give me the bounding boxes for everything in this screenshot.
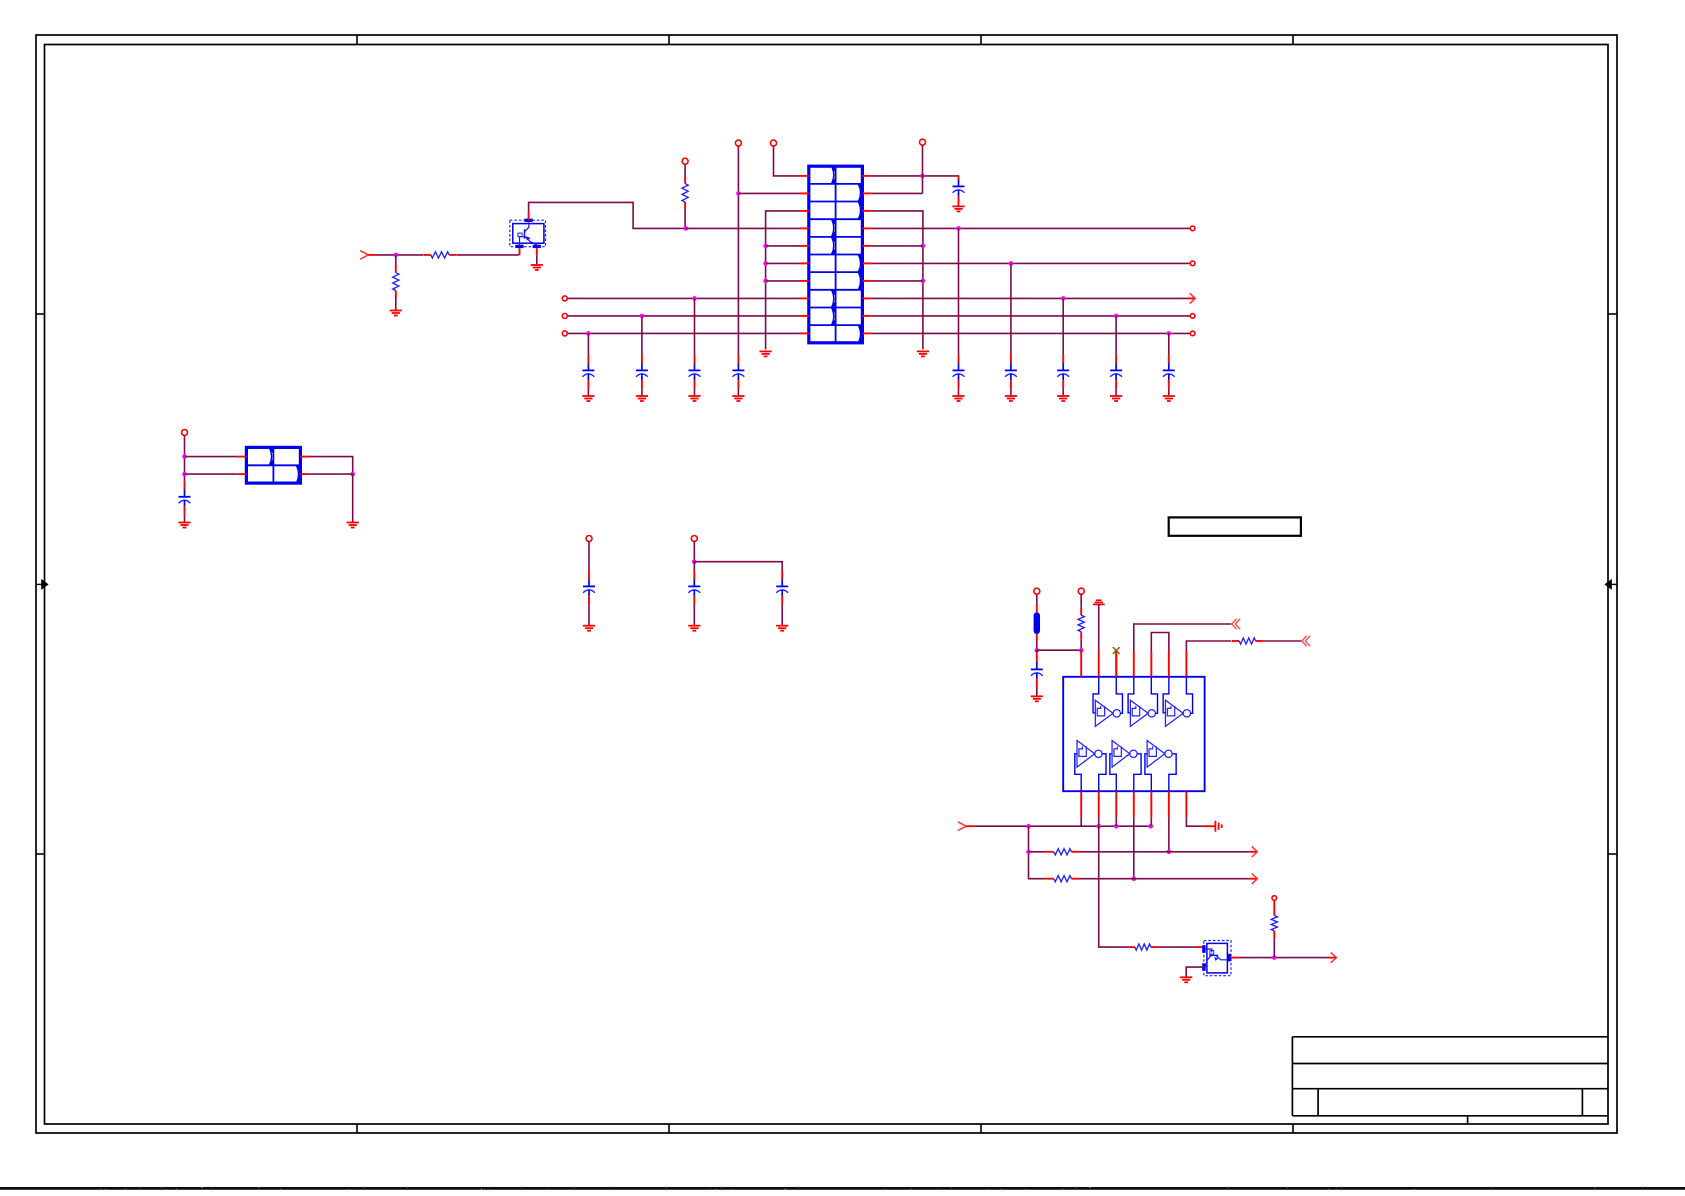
wire (1115, 388, 1117, 396)
wire (185, 473, 238, 475)
ground (732, 396, 744, 401)
capacitor C13 (1163, 354, 1175, 388)
wire (1036, 687, 1038, 696)
junction (182, 454, 187, 459)
ground (531, 265, 543, 270)
wire (1115, 316, 1117, 355)
wire (872, 332, 1191, 334)
wire (1037, 649, 1081, 651)
wire (774, 146, 800, 176)
ground (582, 396, 594, 401)
wire (1134, 624, 1232, 652)
junction (763, 279, 768, 284)
capacitor C10 (1005, 354, 1017, 388)
power node (682, 158, 688, 164)
wire (184, 436, 186, 481)
ground (952, 396, 964, 401)
wire (1062, 298, 1064, 354)
wire (872, 315, 1191, 317)
wire (1029, 826, 1047, 879)
wire (1080, 817, 1082, 826)
junction (956, 226, 961, 231)
junction (692, 559, 697, 564)
junction (684, 226, 689, 231)
wire (1273, 938, 1275, 957)
power node (182, 430, 188, 436)
junction (763, 261, 768, 266)
junction (350, 472, 355, 477)
ground (347, 523, 359, 528)
wire (694, 298, 696, 354)
power ground (1093, 600, 1105, 604)
power node (1078, 588, 1084, 594)
node (691, 536, 697, 542)
port arrow (1328, 952, 1337, 962)
wire (184, 515, 186, 523)
wire (377, 254, 424, 256)
wire (738, 192, 799, 194)
junction (1114, 314, 1119, 319)
wire (1238, 957, 1329, 959)
power node (920, 139, 926, 145)
ground (1180, 977, 1192, 982)
wire (766, 280, 800, 282)
wire (1151, 633, 1169, 652)
ground (1057, 396, 1069, 401)
wire (1115, 817, 1117, 826)
wire (185, 456, 238, 458)
port arrow (1187, 293, 1196, 303)
node (586, 536, 592, 542)
wire (684, 164, 686, 176)
wire (958, 204, 960, 206)
wire (1079, 878, 1249, 880)
wire (974, 825, 1150, 827)
wire (1098, 604, 1100, 651)
ground (636, 396, 648, 401)
port arrow (1249, 874, 1258, 884)
wire (1186, 967, 1204, 977)
ground (583, 626, 595, 631)
junction (1009, 261, 1014, 266)
junction (1026, 824, 1031, 829)
port P2 (958, 822, 974, 831)
ground (760, 351, 772, 356)
node (1190, 261, 1195, 266)
wire (872, 211, 923, 350)
ground (178, 523, 190, 528)
ground (688, 626, 700, 631)
resistor R5 (1232, 638, 1263, 644)
wire (1036, 642, 1038, 651)
wire (567, 315, 799, 317)
power node (771, 140, 777, 146)
wire (587, 388, 589, 396)
wire (766, 262, 800, 264)
wire (1150, 817, 1152, 826)
wire (686, 227, 800, 229)
wire (567, 332, 799, 334)
capacitor C5 (582, 354, 594, 388)
wire (694, 388, 696, 396)
capacitor C9 (953, 354, 965, 388)
wire (1029, 851, 1047, 853)
junction (182, 472, 187, 477)
wire (352, 474, 354, 522)
wire (536, 255, 538, 265)
wire (310, 473, 353, 475)
wire (567, 297, 799, 299)
capacitor C7 (689, 354, 701, 388)
ground (1163, 396, 1175, 401)
wire (872, 280, 923, 282)
junction (920, 174, 925, 179)
capacitor C14 (776, 570, 788, 604)
wire (872, 192, 923, 194)
junction (1167, 850, 1172, 855)
junction (394, 253, 399, 258)
transistor Q2 (1202, 941, 1231, 976)
wire (872, 227, 1191, 229)
IC U3 (1063, 652, 1204, 818)
resistor R7 (1046, 876, 1079, 882)
wire (1010, 263, 1012, 354)
wire (588, 604, 590, 625)
junction (763, 244, 768, 249)
wire (1168, 388, 1170, 396)
wire (1036, 650, 1038, 653)
junction (1061, 296, 1066, 301)
wire (737, 388, 739, 396)
wire (872, 175, 959, 177)
capacitor C8 (953, 176, 965, 204)
resistor R4 (1078, 608, 1084, 639)
ground (688, 396, 700, 401)
wire (1098, 817, 1100, 826)
node (1190, 314, 1195, 319)
node (1190, 331, 1195, 336)
port arrow (1249, 847, 1258, 857)
wire (1186, 817, 1203, 826)
wire (693, 542, 695, 562)
wire (641, 316, 643, 355)
junction (1148, 824, 1153, 829)
wire (922, 145, 924, 193)
wire (693, 562, 695, 571)
wire (1010, 388, 1012, 396)
wire (1133, 817, 1135, 879)
resistor R9 (1271, 908, 1277, 938)
capacitor C2 (583, 570, 595, 604)
junction (1114, 824, 1119, 829)
wire (781, 604, 783, 625)
junction (1096, 824, 1101, 829)
wire (395, 255, 397, 267)
wire (1080, 650, 1082, 651)
capacitor C6 (636, 354, 648, 388)
resistor R2 (393, 265, 399, 298)
wire (529, 202, 685, 228)
wire (395, 297, 397, 311)
IC U1 (800, 166, 872, 343)
wire (457, 254, 519, 256)
no connect X (1113, 647, 1120, 677)
wire (1099, 826, 1128, 947)
capacitor C4 (732, 354, 744, 388)
ground (776, 626, 788, 631)
node (562, 296, 567, 301)
power node (1034, 588, 1040, 594)
capacitor C11 (1057, 354, 1069, 388)
wire (958, 228, 960, 354)
wire (1062, 388, 1064, 396)
junction (1026, 850, 1031, 855)
resistor R1 (423, 252, 456, 258)
junction (921, 279, 926, 284)
ground (952, 206, 964, 211)
wire (958, 388, 960, 396)
junction (1035, 648, 1040, 653)
ground (1110, 396, 1122, 401)
wire (737, 146, 739, 354)
power node (735, 140, 741, 146)
port chevron (1302, 636, 1310, 647)
wire (641, 388, 643, 396)
resistor R3 (682, 176, 688, 210)
ground (917, 351, 929, 356)
ground (1031, 696, 1043, 701)
wire (766, 245, 800, 247)
transistor Q1 (510, 211, 546, 255)
junction (1131, 876, 1136, 881)
wire (1080, 639, 1082, 650)
wire (1080, 594, 1082, 608)
port chevron (1232, 619, 1240, 630)
wire (872, 297, 1187, 299)
wire (766, 211, 800, 350)
node (1272, 896, 1277, 901)
node (562, 313, 567, 318)
wire (872, 245, 923, 247)
node (562, 331, 567, 336)
junction (1079, 648, 1084, 653)
junction (736, 191, 741, 196)
capacitor C12 (1110, 354, 1122, 388)
wire (1186, 641, 1231, 652)
wire (872, 262, 1191, 264)
capacitor C15 (1031, 653, 1043, 687)
wire (1079, 851, 1249, 853)
wire (1036, 594, 1038, 604)
wire (587, 333, 589, 354)
junction (1272, 955, 1277, 960)
ground (390, 311, 402, 316)
wire (588, 542, 590, 571)
wire (1158, 946, 1196, 948)
wire (1168, 817, 1170, 852)
wire (684, 210, 686, 229)
IC U2 (237, 447, 309, 483)
junction (692, 296, 697, 301)
wire (693, 604, 695, 625)
ground (1215, 821, 1221, 832)
port P1 (360, 251, 376, 260)
label box (1169, 517, 1301, 535)
junction (921, 244, 926, 249)
wire (694, 562, 782, 571)
capacitor C1 (179, 481, 191, 515)
junction (640, 314, 645, 319)
node (1190, 226, 1195, 231)
wire (310, 457, 353, 475)
capacitor C3 (688, 570, 700, 604)
junction (586, 331, 591, 336)
junction (1167, 331, 1172, 336)
resistor R8 (1127, 944, 1158, 950)
ground (1005, 396, 1017, 401)
wire (1168, 333, 1170, 354)
wire (1263, 640, 1301, 642)
inductor L1 (1034, 604, 1040, 642)
resistor R6 (1046, 849, 1079, 855)
